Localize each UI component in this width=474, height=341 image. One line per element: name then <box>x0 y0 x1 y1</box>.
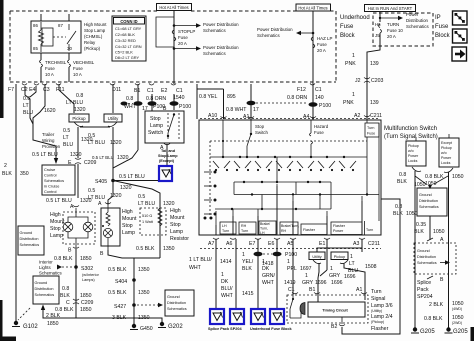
svg-text:Ground: Ground <box>167 295 180 299</box>
svg-text:0.8: 0.8 <box>23 96 30 102</box>
svg-text:Distribution: Distribution <box>20 237 39 241</box>
svg-text:1350: 1350 <box>138 267 150 273</box>
relay contact <box>53 36 66 38</box>
button icon 2 <box>453 29 468 43</box>
svg-text:2 BLK: 2 BLK <box>46 313 61 319</box>
node A (right) <box>427 237 444 243</box>
svg-text:Schematics: Schematics <box>20 243 40 247</box>
svg-text:Fuse: Fuse <box>73 66 83 71</box>
wire relay pin85 down to fuse TRCHMSL <box>40 53 42 60</box>
svg-text:S404: S404 <box>115 279 127 285</box>
svg-text:0.8 WHT: 0.8 WHT <box>226 107 247 113</box>
svg-text:G205: G205 <box>420 329 435 335</box>
svg-text:1050: 1050 <box>406 211 418 217</box>
svg-text:1320: 1320 <box>74 107 86 113</box>
svg-text:C1: C1 <box>288 287 295 293</box>
svg-text:BLK: BLK <box>2 171 12 177</box>
high mount stop lamp (dashed, two bulbs) <box>63 208 95 248</box>
splice S404 <box>115 278 136 285</box>
wire F11 0.8 LT BLU 1320 to Pickup tag <box>59 84 86 113</box>
svg-text:Power Distribution: Power Distribution <box>203 45 239 50</box>
flasher dashed box <box>287 295 368 323</box>
svg-text:Schematics: Schematics <box>35 293 55 297</box>
svg-text:WHT: WHT <box>189 265 202 271</box>
svg-text:(w/Interior: (w/Interior <box>82 273 100 277</box>
label high mount stop lamp (right) <box>122 209 137 236</box>
svg-text:A1: A1 <box>243 114 249 120</box>
label trailer wiring provision <box>42 132 61 149</box>
svg-text:VBCHMSL: VBCHMSL <box>73 60 95 65</box>
svg-text:1050: 1050 <box>452 174 464 180</box>
svg-text:Switch: Switch <box>148 130 163 136</box>
pin C2 E4 <box>21 84 39 94</box>
svg-text:Distribution: Distribution <box>417 255 436 259</box>
svg-text:Underhood Fuse Block: Underhood Fuse Block <box>250 327 292 331</box>
wire A7 1 LT BLU/WHT 1414 <box>189 239 232 310</box>
svg-text:0.5 BLK: 0.5 BLK <box>108 290 127 296</box>
svg-text:LT: LT <box>63 135 69 141</box>
MFS internal bus row 3 <box>234 193 379 195</box>
option box pickup w/o power locks <box>406 141 426 166</box>
MFS pin stubs to bottom <box>216 186 362 235</box>
svg-text:S302: S302 <box>81 266 93 272</box>
merge braces below tags <box>313 260 348 264</box>
label multifunction switch <box>384 126 438 140</box>
svg-text:G102: G102 <box>23 324 38 330</box>
fuse STOPLP <box>172 29 195 46</box>
svg-text:Power Distribution: Power Distribution <box>203 22 239 27</box>
svg-text:BLK: BLK <box>397 179 407 185</box>
svg-text:0.5 BLK: 0.5 BLK <box>136 246 155 252</box>
svg-text:Stop Lamp: Stop Lamp <box>158 154 178 158</box>
svg-text:Fuse: Fuse <box>314 130 324 135</box>
svg-text:Locks: Locks <box>408 159 418 163</box>
wire 0.8 BLK 1850 lower <box>43 307 162 323</box>
wire A3 turn output split <box>317 239 362 252</box>
svg-text:Control: Control <box>44 189 57 194</box>
svg-text:0.8: 0.8 <box>395 204 402 210</box>
svg-text:1: 1 <box>350 254 353 260</box>
svg-text:Schematics: Schematics <box>417 261 437 265</box>
wire D11 down to Utility tag <box>112 84 114 113</box>
wire 0.5 LT BLU 1320 label left lamp <box>46 198 92 204</box>
IP fuse block dashed box <box>373 13 433 46</box>
svg-text:Stop: Stop <box>255 124 265 129</box>
svg-text:Locks: Locks <box>441 161 451 165</box>
svg-text:D8=2 LT GRY: D8=2 LT GRY <box>115 55 140 60</box>
arrow up into ground distribution box 2 <box>41 305 45 311</box>
svg-text:Hot In RUN And START: Hot In RUN And START <box>368 6 413 11</box>
high mount stop lamp (solid, resistor+bulb) <box>101 205 120 250</box>
svg-text:C209: C209 <box>81 300 94 306</box>
svg-text:1 Watt: 1 Watt <box>142 220 154 224</box>
svg-text:0.5 LT BLU: 0.5 LT BLU <box>92 155 114 160</box>
svg-text:Flasher: Flasher <box>371 326 389 332</box>
svg-text:Block: Block <box>435 33 451 39</box>
svg-text:C2 E4: C2 E4 <box>21 87 36 93</box>
svg-text:A2: A2 <box>354 113 360 119</box>
svg-text:(Turn Signal Switch): (Turn Signal Switch) <box>384 134 438 140</box>
ground G205 (right) <box>445 327 469 335</box>
MFS internal dashed mech line <box>210 140 367 142</box>
svg-text:w/o: w/o <box>441 151 447 155</box>
connector C209 pin E <box>68 158 97 198</box>
svg-text:C: C <box>66 300 70 306</box>
svg-text:LH: LH <box>222 224 227 228</box>
svg-text:1 LT BLU/: 1 LT BLU/ <box>189 257 212 263</box>
label 0.5 BLK 1350 (below S404) <box>108 290 150 296</box>
svg-text:IP: IP <box>435 15 441 21</box>
option tag Pickup (bottom) <box>331 252 348 260</box>
svg-text:PNK: PNK <box>343 100 354 106</box>
svg-text:A: A <box>440 237 444 243</box>
MFS internal dashed left column <box>209 141 211 221</box>
node B (left lamp) <box>68 247 79 254</box>
svg-text:0.8 YEL: 0.8 YEL <box>199 94 217 100</box>
svg-text:2: 2 <box>4 163 7 169</box>
svg-text:1: 1 <box>287 259 290 265</box>
svg-text:BLK: BLK <box>60 293 70 299</box>
svg-text:1350: 1350 <box>138 315 150 321</box>
node A (resistor lamp) <box>98 201 111 207</box>
wire HAZ LP feed from tag2 <box>312 11 314 84</box>
wire 0.8 BLK 1850 from left lamp <box>54 249 92 318</box>
svg-text:Control: Control <box>44 173 57 178</box>
label high mount stop lamp resistor <box>170 208 189 242</box>
label flasher right <box>371 289 393 332</box>
wire A1 0.8 WHT 17 w/ P100 <box>226 84 308 120</box>
MFS bottom cell dividers <box>220 221 365 235</box>
wire 0.8 BLK 1850 labels mid <box>60 286 92 299</box>
svg-text:Fuse: Fuse <box>367 132 375 136</box>
svg-text:LT BLU: LT BLU <box>138 201 155 207</box>
splice S405 <box>95 179 115 185</box>
svg-text:1: 1 <box>352 53 355 59</box>
svg-text:17: 17 <box>253 107 259 113</box>
svg-text:Timing Circuit: Timing Circuit <box>322 309 348 313</box>
MFS internal bus row 2 <box>234 181 331 183</box>
svg-text:E: E <box>68 160 72 166</box>
pin A6 <box>226 238 236 247</box>
svg-text:1: 1 <box>352 92 355 98</box>
svg-text:Schematics: Schematics <box>203 51 226 56</box>
svg-text:Pack: Pack <box>417 287 429 293</box>
svg-text:TRCHMSL: TRCHMSL <box>45 60 67 65</box>
svg-text:1620: 1620 <box>44 108 56 114</box>
svg-text:Utility: Utility <box>108 116 120 121</box>
svg-text:1414: 1414 <box>220 259 232 265</box>
svg-text:0.8 ORN: 0.8 ORN <box>146 96 166 102</box>
CONN ID table <box>112 16 146 61</box>
MFS internal bus row 1 <box>210 156 367 158</box>
svg-text:Turn: Turn <box>367 126 374 130</box>
button icon 1 <box>453 11 468 25</box>
wire A10 0.8 YEL 895 <box>197 84 316 119</box>
wire 0.5 LT BLU 1320 from S405 to resistor <box>113 181 175 208</box>
pin D11 <box>112 87 121 93</box>
arrow to power distribution 2 <box>174 45 239 56</box>
merge braces option boxes <box>412 167 453 173</box>
svg-text:F12: F12 <box>297 87 306 93</box>
svg-text:A6: A6 <box>226 241 232 247</box>
svg-text:0.8: 0.8 <box>62 286 69 292</box>
svg-text:85: 85 <box>33 46 38 51</box>
wire E1 1 GRY 1696 <box>300 239 327 286</box>
pin E7 <box>249 238 261 247</box>
wire C2/E4 0.8 LT BLU 1620 <box>23 84 56 128</box>
wire from stop lamp switch A down <box>166 144 168 165</box>
ground G102 <box>12 321 38 330</box>
wire PNK 139 second segment <box>343 92 379 106</box>
svg-text:(Pickup): (Pickup) <box>84 46 101 51</box>
svg-text:Fuse: Fuse <box>45 66 55 71</box>
pin A7 <box>208 238 219 247</box>
svg-text:HAZ LP: HAZ LP <box>317 36 332 41</box>
svg-text:C2=68 BLK: C2=68 BLK <box>115 32 135 37</box>
svg-text:Distribution: Distribution <box>406 18 429 23</box>
svg-text:(Except): (Except) <box>159 159 175 163</box>
svg-text:30: 30 <box>67 46 72 51</box>
svg-text:Pickup: Pickup <box>72 116 86 121</box>
svg-text:Lamp: Lamp <box>170 229 183 235</box>
svg-text:Schematics: Schematics <box>167 307 187 311</box>
hyperlink box 2 (splice pack) <box>210 309 224 324</box>
svg-text:C1: C1 <box>147 88 154 94</box>
svg-text:C203: C203 <box>371 78 384 84</box>
fuse TRCHMSL <box>40 60 67 82</box>
MFS bottom cell labels <box>222 222 373 235</box>
svg-text:1320: 1320 <box>70 152 82 158</box>
svg-text:BLU: BLU <box>63 142 73 148</box>
svg-text:Signal: Signal <box>371 296 385 302</box>
wire B1 down w/ P100 <box>124 84 148 150</box>
svg-text:B: B <box>68 248 72 254</box>
svg-text:w/o: w/o <box>408 149 414 153</box>
svg-text:Mount: Mount <box>170 215 185 221</box>
label: Hot At All Times (right tag) <box>296 4 331 11</box>
hyperlink box 1 (tail/stop lamp) <box>159 166 172 181</box>
svg-text:Tail and: Tail and <box>161 149 176 153</box>
svg-text:Schematics: Schematics <box>419 205 439 209</box>
svg-text:0.5: 0.5 <box>63 128 70 134</box>
svg-text:High: High <box>122 209 133 215</box>
svg-text:E7: E7 <box>249 241 255 247</box>
svg-text:87: 87 <box>58 23 63 28</box>
svg-text:Distribution: Distribution <box>35 287 54 291</box>
MFS internal: stop switch <box>247 120 268 157</box>
svg-text:DK: DK <box>262 266 270 272</box>
svg-text:F11: F11 <box>56 87 65 93</box>
flasher pin B2 <box>331 317 345 330</box>
svg-text:Hot At All Times: Hot At All Times <box>159 5 188 10</box>
svg-text:Lamps): Lamps) <box>82 278 95 282</box>
svg-text:Pickup: Pickup <box>408 144 419 148</box>
svg-text:High Mount: High Mount <box>84 22 107 27</box>
label: Hot At All Times (left tag) <box>157 4 192 11</box>
ground distribution schematics box (right solid) <box>417 188 447 216</box>
connector C203 <box>355 78 384 85</box>
svg-text:PNK: PNK <box>345 61 356 67</box>
svg-text:Wiring: Wiring <box>42 138 55 143</box>
svg-text:WHT: WHT <box>262 280 275 286</box>
svg-text:Brake/: Brake/ <box>260 222 270 226</box>
wire 0.35 BLK 1050 <box>414 216 445 240</box>
svg-text:Stop: Stop <box>150 116 161 122</box>
svg-text:Fuse: Fuse <box>340 24 354 30</box>
svg-text:Power Distribution: Power Distribution <box>257 27 293 32</box>
svg-text:C3=32 RED: C3=32 RED <box>115 38 136 43</box>
svg-text:LT: LT <box>23 103 29 109</box>
svg-text:Hot At All Times: Hot At All Times <box>298 6 327 11</box>
svg-text:High: High <box>50 212 61 218</box>
svg-text:B: B <box>163 106 167 112</box>
pin C3 <box>42 84 315 94</box>
svg-text:350: 350 <box>20 171 29 177</box>
svg-text:Trailer: Trailer <box>42 132 55 137</box>
multifunction switch box <box>199 120 381 235</box>
ground G205 (left) <box>411 327 435 335</box>
svg-text:1: 1 <box>262 259 265 265</box>
svg-text:Fuse 10: Fuse 10 <box>387 28 403 33</box>
svg-text:GRY: GRY <box>329 273 341 279</box>
label interior lights schematics w/ arrow <box>39 260 74 276</box>
label: Hot In RUN And START tag <box>365 5 416 12</box>
svg-text:0.5 LT BLU: 0.5 LT BLU <box>119 174 145 180</box>
flasher pins C1 B1 A1 ticks <box>292 293 367 294</box>
svg-text:Ground: Ground <box>419 193 432 197</box>
svg-text:0.5: 0.5 <box>138 194 145 200</box>
flasher timing circuit box <box>308 302 365 317</box>
relay coil <box>42 28 53 46</box>
pin E1 <box>319 238 330 247</box>
svg-text:Splice Pack SP204: Splice Pack SP204 <box>208 327 242 331</box>
wire relay pin30 down to fuse VBCHMSL <box>68 53 70 60</box>
label: Underhood Fuse Block <box>340 15 370 39</box>
wire utility 1 GRY 1696 to flasher B1 <box>309 263 343 302</box>
svg-text:2 BLK: 2 BLK <box>429 302 444 308</box>
wire C1 0.8 ORN to stop lamp switch <box>146 94 166 111</box>
svg-text:Turn: Turn <box>366 228 373 232</box>
svg-text:S427: S427 <box>114 304 126 310</box>
svg-text:Power: Power <box>333 229 344 233</box>
splice S302 <box>74 265 99 282</box>
ground distribution schematics box 2 (lower left) <box>33 276 59 304</box>
option box stubs up <box>416 134 449 141</box>
svg-text:RH: RH <box>241 224 247 228</box>
svg-text:Mount: Mount <box>122 216 137 222</box>
svg-text:C3: C3 <box>43 87 50 93</box>
svg-text:Lamp: Lamp <box>150 123 163 129</box>
svg-text:20 A: 20 A <box>317 48 326 53</box>
label tail and stop lamp <box>158 149 178 163</box>
svg-text:1850: 1850 <box>47 321 59 327</box>
svg-text:A4: A4 <box>303 114 309 120</box>
svg-text:B: B <box>440 277 444 283</box>
svg-text:Lamp: Lamp <box>122 230 135 236</box>
svg-text:CONN ID: CONN ID <box>120 19 137 24</box>
svg-text:G205: G205 <box>453 329 468 335</box>
svg-text:(Utility): (Utility) <box>371 309 382 313</box>
wire E7 1 YEL/BLK 1418 w/ P100 <box>242 239 274 310</box>
svg-text:Hazard: Hazard <box>314 124 329 129</box>
svg-text:Pickup: Pickup <box>441 146 452 150</box>
svg-text:A: A <box>70 204 74 210</box>
option tag Utility <box>104 114 122 122</box>
svg-text:(CHMSL): (CHMSL) <box>84 34 103 39</box>
svg-text:1: 1 <box>330 266 333 272</box>
button icon 3 arrow <box>452 47 467 61</box>
svg-text:Power: Power <box>408 154 419 158</box>
label: relay name <box>84 22 107 51</box>
svg-text:0.8 BLK: 0.8 BLK <box>425 174 444 180</box>
svg-text:Fuse: Fuse <box>178 35 188 40</box>
svg-text:510 Ω: 510 Ω <box>142 214 152 218</box>
svg-text:A7: A7 <box>208 241 214 247</box>
svg-text:E6: E6 <box>268 241 274 247</box>
svg-text:A: A <box>98 201 102 207</box>
svg-text:C211: C211 <box>368 241 380 247</box>
svg-text:Switch: Switch <box>255 130 268 135</box>
svg-text:1696: 1696 <box>344 274 356 280</box>
MFS internal vertical links <box>234 157 331 209</box>
svg-text:RH: RH <box>281 229 287 233</box>
svg-text:20 A: 20 A <box>387 34 396 39</box>
scan edge artifacts <box>0 0 4 118</box>
dashed connector pin line above MFS <box>200 118 380 120</box>
pin E6 <box>268 238 280 247</box>
svg-text:Pickup: Pickup <box>334 255 345 259</box>
svg-text:1696: 1696 <box>331 280 343 286</box>
wire B2 loop to MFS right <box>342 199 400 334</box>
svg-text:Stop Lamp: Stop Lamp <box>84 28 106 33</box>
ground G202 <box>158 322 183 330</box>
svg-text:Fuse: Fuse <box>317 42 327 47</box>
svg-text:S405: S405 <box>95 179 107 185</box>
hyperlink box 5 (underhood fuse block) <box>270 309 284 324</box>
svg-text:C1=68 LT GRY: C1=68 LT GRY <box>115 26 142 31</box>
svg-text:1: 1 <box>305 273 308 279</box>
fuse HAZ LP <box>311 36 332 53</box>
svg-text:YEL/: YEL/ <box>242 259 254 265</box>
svg-text:E1: E1 <box>319 241 325 247</box>
wire 0.5 LT BLU 1320 from S405 down to lamp A <box>88 182 122 205</box>
wire E6 1 DK GRN/WHT w/ P100 <box>262 239 297 310</box>
label 3 BLK 1350 <box>112 315 150 321</box>
wire relay pin86 stub up <box>40 14 42 21</box>
arrow to power distribution 3 <box>257 27 314 38</box>
pin F7 <box>8 84 16 93</box>
svg-text:0.8 BLK: 0.8 BLK <box>424 316 443 322</box>
wire 0.8 BLK 1050 center label <box>425 174 464 187</box>
svg-text:BLK: BLK <box>242 266 252 272</box>
svg-text:A3: A3 <box>353 241 359 247</box>
svg-text:STOPLP: STOPLP <box>178 29 195 34</box>
option tag Pickup <box>69 114 89 122</box>
svg-text:1696: 1696 <box>315 280 327 286</box>
svg-text:B1: B1 <box>309 287 315 293</box>
svg-text:Turn: Turn <box>371 289 382 295</box>
splice S427 w/ dashed arrow <box>114 303 163 310</box>
svg-text:0.8: 0.8 <box>76 93 83 99</box>
svg-text:J5: J5 <box>375 33 380 38</box>
svg-text:Utility: Utility <box>312 255 321 259</box>
wire ground chain to G450 <box>108 258 160 325</box>
fuse VBCHMSL <box>68 60 95 82</box>
svg-text:Multifunction Switch: Multifunction Switch <box>384 126 437 132</box>
svg-text:Block: Block <box>340 33 356 39</box>
wire A10 inside MFS <box>222 120 224 157</box>
label 2 BLK 1850 <box>46 313 61 327</box>
